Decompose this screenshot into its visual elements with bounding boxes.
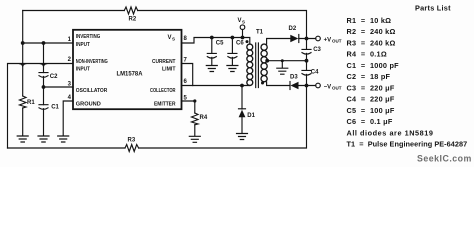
pin 8	[184, 36, 188, 42]
svg-text:V: V	[168, 35, 172, 41]
transformer secondary winding	[261, 44, 267, 82]
svg-text:LM1578A: LM1578A	[117, 72, 144, 78]
wire secondary bottom to D3	[267, 82, 290, 86]
terminal +VOUT	[316, 36, 342, 43]
svg-text:C3 = 220 μF: C3 = 220 μF	[347, 83, 395, 92]
capacitor C4	[302, 61, 319, 86]
node oscillator junction	[42, 85, 46, 89]
svg-text:S: S	[172, 37, 175, 42]
svg-text:C1 = 1000 pF: C1 = 1000 pF	[347, 61, 400, 70]
svg-text:C4 = 220 μF: C4 = 220 μF	[347, 95, 395, 104]
resistor R4	[192, 113, 208, 125]
wire center tap line	[265, 59, 306, 63]
node VS junction	[241, 36, 245, 40]
wire R1 to ground	[22, 108, 24, 135]
diode D1	[239, 86, 256, 133]
svg-text:INVERTING: INVERTING	[76, 34, 101, 40]
terminal VS	[238, 18, 246, 38]
resistor R1	[20, 96, 36, 108]
svg-text:R2: R2	[129, 16, 137, 22]
svg-text:R4: R4	[200, 115, 208, 121]
ground below D1	[237, 134, 248, 140]
svg-text:COLLECTOR: COLLECTOR	[150, 88, 176, 94]
node C2 top junction	[42, 41, 46, 45]
svg-text:EMITTER: EMITTER	[154, 102, 176, 108]
svg-text:−V: −V	[324, 84, 332, 90]
wire D2 to +VOUT	[299, 38, 316, 40]
ground center tap	[277, 61, 288, 74]
wire pin 5 to R4	[182, 99, 197, 113]
wire pin 3 line	[44, 86, 74, 88]
pin 2	[68, 57, 72, 63]
node C6 junction	[231, 36, 235, 40]
svg-text:C5: C5	[216, 41, 224, 47]
svg-text:R2 = 240 kΩ: R2 = 240 kΩ	[347, 27, 396, 36]
wire pin 2 line and left vertical	[8, 64, 74, 149]
pin 6	[184, 79, 188, 85]
wire left inverting-node vertical	[20, 11, 26, 97]
wire pin 8 to VS rail	[182, 38, 250, 45]
Parts List panel	[347, 4, 468, 149]
capacitor C2	[39, 73, 58, 80]
ground below R1	[17, 136, 28, 142]
svg-text:C4: C4	[311, 70, 319, 76]
svg-text:GROUND: GROUND	[76, 102, 101, 108]
wire C2 branch vertical	[40, 43, 46, 135]
svg-text:NON-INVERTING: NON-INVERTING	[76, 59, 108, 65]
svg-text:INPUT: INPUT	[76, 42, 90, 48]
pin 5	[184, 96, 188, 102]
capacitor C5	[207, 38, 224, 65]
svg-text:R4 = 0.1Ω: R4 = 0.1Ω	[347, 50, 387, 59]
svg-text:D2: D2	[289, 26, 297, 32]
svg-text:R1: R1	[27, 100, 35, 106]
node +VOUT junction	[305, 37, 309, 41]
pin 4	[68, 95, 72, 101]
capacitor C6	[228, 38, 244, 65]
svg-text:C5 = 100 μF: C5 = 100 μF	[347, 106, 395, 115]
wire collector line	[182, 85, 250, 87]
pin 1	[68, 37, 72, 43]
svg-text:R3: R3	[128, 138, 136, 144]
svg-text:C3: C3	[313, 47, 321, 53]
ground below R4	[189, 136, 200, 142]
svg-text:T1 = Pulse Engineering PE-64: T1 = Pulse Engineering PE-64287	[347, 140, 468, 149]
svg-text:LIMIT: LIMIT	[162, 67, 176, 73]
wire bottom feedback line	[8, 86, 307, 149]
transformer core	[256, 43, 259, 88]
transformer phase dot primary	[246, 40, 249, 43]
node C5 junction	[210, 36, 214, 40]
svg-text:C6: C6	[236, 41, 244, 47]
svg-text:S: S	[242, 20, 245, 25]
ground below C1	[38, 136, 49, 142]
svg-text:T1: T1	[256, 30, 264, 36]
svg-text:All diodes are 1N5819: All diodes are 1N5819	[347, 128, 434, 137]
svg-text:C2 = 18 pF: C2 = 18 pF	[347, 72, 391, 81]
svg-text:OUT: OUT	[332, 86, 342, 91]
capacitor C1	[39, 105, 60, 111]
watermark SeekIC.com	[417, 154, 472, 164]
svg-text:CURRENT: CURRENT	[152, 59, 176, 65]
op-amp U1 LM1578A box	[73, 30, 182, 109]
svg-text:C6 = 0.1 μF: C6 = 0.1 μF	[347, 117, 393, 126]
diode D3	[290, 75, 299, 90]
svg-text:OUT: OUT	[332, 39, 342, 44]
svg-text:INPUT: INPUT	[76, 67, 90, 73]
ground below C5	[206, 66, 217, 72]
pin 7	[184, 58, 188, 64]
terminal -VOUT	[316, 83, 342, 90]
svg-text:R1 = 10 kΩ: R1 = 10 kΩ	[347, 16, 392, 25]
node -VOUT junction	[305, 84, 309, 88]
diode D2	[289, 26, 299, 43]
ground below pin 4	[58, 136, 69, 142]
svg-text:V: V	[238, 18, 242, 24]
wire pin 1 line	[23, 42, 73, 44]
transformer T1	[256, 30, 264, 36]
node D1 junction	[240, 84, 244, 88]
svg-text:SeekIC.com: SeekIC.com	[417, 154, 472, 164]
wire pin 4 to ground	[63, 101, 73, 135]
svg-text:D1: D1	[247, 113, 255, 119]
resistor R3	[125, 138, 139, 152]
svg-text:+V: +V	[324, 37, 332, 43]
node inverting input junction	[21, 41, 25, 45]
wire secondary top to D2	[267, 39, 291, 45]
resistor R2	[124, 7, 137, 22]
svg-text:Parts List: Parts List	[415, 4, 451, 13]
transformer phase dot secondary	[261, 82, 264, 85]
node center junction	[305, 59, 309, 63]
capacitor C3	[302, 39, 322, 61]
svg-text:C1: C1	[51, 105, 59, 111]
transformer primary winding	[247, 44, 253, 85]
svg-text:OSCILLATOR: OSCILLATOR	[76, 88, 108, 94]
wire top feedback rail	[23, 11, 307, 39]
wire R4 to ground	[194, 125, 196, 136]
pin 3	[68, 82, 72, 88]
wire D3 to -VOUT	[299, 85, 316, 87]
svg-text:D3: D3	[290, 75, 298, 81]
svg-text:C2: C2	[50, 74, 58, 80]
wire pin 7 drop to collector line	[182, 64, 193, 86]
svg-text:R3 = 240 kΩ: R3 = 240 kΩ	[347, 38, 396, 47]
ground below C6	[227, 66, 238, 72]
